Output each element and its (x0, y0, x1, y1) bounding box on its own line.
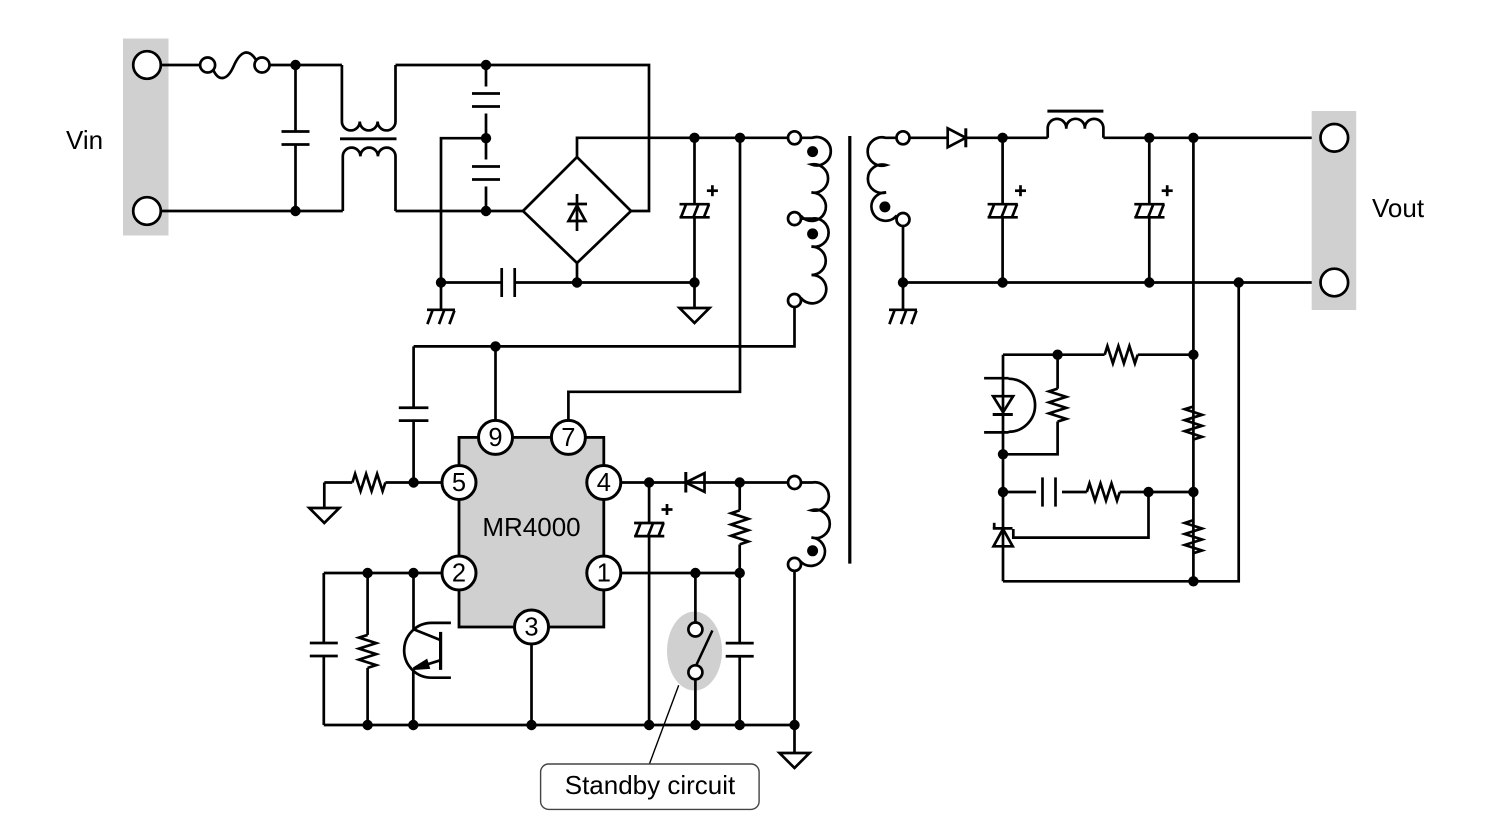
wire choke to bridge top-right (396, 65, 650, 211)
fuse F1 (200, 53, 269, 79)
junction dot C-standby bottom (735, 720, 745, 730)
aux electrolytic C-vcc2 (634, 483, 672, 726)
standby highlight ellipse (667, 612, 722, 691)
bulk electrolytic C1 (680, 138, 718, 283)
junction dot C1 bottom (689, 277, 699, 287)
transformer T1 secondary winding (868, 131, 910, 226)
Vout terminal + circle (1321, 124, 1349, 152)
junction dot pin3 (526, 720, 536, 730)
transformer core bar (848, 136, 851, 564)
resistor R-upper divider (1185, 407, 1202, 440)
wire bottom line to bridge (396, 210, 524, 213)
svg-text:2: 2 (452, 560, 466, 588)
junction dot DC+ at C1 (689, 133, 699, 143)
wire pin2 rail (324, 572, 443, 575)
capacitor C-vcc (399, 346, 429, 482)
wire bridge bottom (576, 263, 579, 283)
Vin terminal - circle (133, 197, 161, 225)
Vout terminal block (1312, 111, 1357, 310)
Vout terminal - circle (1321, 269, 1349, 297)
IC pin 2 (442, 556, 476, 590)
junction dot ground rail left (436, 277, 446, 287)
svg-text:4: 4 (597, 469, 611, 497)
junction dot Vout+ C3 (1144, 133, 1154, 143)
junction dot C3 bottom (1144, 277, 1154, 287)
svg-text:5: 5 (452, 469, 466, 497)
leader line standby (649, 685, 678, 764)
wire pin7 to DC rail (568, 138, 740, 421)
output electrolytic C2 (988, 138, 1026, 283)
Vin terminal block (123, 39, 169, 236)
junction dot secondary return (898, 277, 908, 287)
startup wire T1 to IC (414, 307, 795, 346)
filter inductor L2 (1047, 111, 1103, 138)
resistor R-fb phase (1087, 483, 1120, 500)
wire Vin-L to fuse (160, 64, 200, 67)
junction dot fb bottom (1188, 576, 1198, 586)
shunt regulator TL431 (993, 492, 1013, 581)
svg-text:7: 7 (561, 424, 575, 452)
secondary ground rail (903, 281, 1321, 284)
junction dot D3-C2 (997, 133, 1007, 143)
wire opto to TL431 (1002, 454, 1005, 492)
T1 polarity dot primary (807, 146, 818, 157)
transistor Q1 (404, 573, 451, 725)
wire L2 to Vout+ (1103, 136, 1321, 139)
wire to fb mid dots (1120, 491, 1194, 494)
IC pin 4 (587, 466, 621, 500)
junction dot fb top rail (1188, 350, 1198, 360)
junction dot aux return (789, 720, 799, 730)
capacitor CY1 (472, 65, 500, 138)
fb top rail (1003, 353, 1193, 356)
resistor R-pin5 (324, 474, 413, 491)
svg-text:3: 3 (524, 614, 538, 642)
bridge rectifier DB1 (523, 157, 631, 263)
optocoupler PC1 LED (984, 355, 1035, 455)
T1 polarity dot secondary (879, 201, 890, 212)
junction dot node A (290, 60, 300, 70)
wire pin4 rail (621, 481, 788, 484)
Vin terminal + circle (133, 51, 161, 79)
junction dot pin2-R (362, 568, 372, 578)
junction dot Vout- fb (1234, 277, 1244, 287)
junction dot opto-R top (1052, 350, 1062, 360)
junction dot pin1-R (735, 568, 745, 578)
junction dot bridge bottom (572, 277, 582, 287)
IC pin 3 (515, 610, 549, 644)
resistor R-lower divider (1185, 520, 1202, 553)
ground aux return (780, 725, 810, 768)
junction dot Y-cap mid (481, 133, 491, 143)
Vout label (1372, 193, 1425, 223)
junction dot Y-cap bottom (481, 206, 491, 216)
wire Y-cap mid to primary ground (441, 138, 486, 282)
junction dot rail-Q1 (408, 720, 418, 730)
TL431 reference wire (1013, 492, 1148, 538)
junction dot pin2-Q (408, 568, 418, 578)
IC pin 9 (479, 420, 513, 454)
junction dot Y-cap top (481, 60, 491, 70)
diode D2 aux (686, 472, 705, 493)
junction dot rail-C2 (362, 720, 372, 730)
primary common rail (324, 724, 795, 727)
T1 polarity dot standby (807, 545, 818, 556)
IC pin 1 (587, 556, 621, 590)
junction dot pin5 node (408, 477, 418, 487)
Vin label (66, 125, 103, 155)
svg-text:1: 1 (597, 560, 611, 588)
capacitor CY2 (472, 138, 500, 211)
standby switch SW1 (688, 573, 712, 725)
IC pin 7 (551, 420, 585, 454)
diode D3 output (948, 128, 1003, 147)
capacitor C-pin2 (310, 573, 338, 725)
junction dot pin4-R (735, 477, 745, 487)
resistor R-fb series (1105, 346, 1138, 363)
common-mode choke L1 (340, 65, 397, 211)
wire D3 to L2 (1003, 136, 1048, 139)
junction dot TL431 cathode node (998, 487, 1008, 497)
transformer T1 mid terminal (788, 212, 801, 225)
wire pin1 rail (621, 572, 740, 575)
chassis ground primary (427, 283, 455, 325)
svg-text:9: 9 (488, 424, 502, 452)
chassis ground secondary (889, 283, 917, 325)
fb bottom rail (1003, 283, 1239, 582)
transformer T1 aux winding (788, 218, 829, 307)
wire pin3 down (530, 644, 533, 726)
capacitor C-ground coupling (502, 268, 515, 297)
IC pin 5 (442, 466, 476, 500)
capacitor CX1 across line (282, 65, 310, 211)
signal ground below C1 (680, 283, 710, 324)
wire pin5 (414, 481, 443, 484)
svg-text:Vin: Vin (66, 125, 103, 155)
junction dot C-vcc2 bottom (644, 720, 654, 730)
wire pin9 up (494, 346, 497, 421)
fb mid branch (1003, 477, 1087, 506)
junction dot pin4-C (644, 477, 654, 487)
primary ground rail (441, 281, 695, 284)
aux winding T1 standby (788, 476, 830, 571)
junction dot fb mid (1188, 487, 1198, 497)
wire secondary to D3 (910, 136, 948, 139)
output electrolytic C3 (1134, 138, 1172, 283)
IC MR4000 body (459, 437, 604, 627)
svg-text:MR4000: MR4000 (482, 512, 580, 542)
junction dot switch bottom (690, 720, 700, 730)
junction dot C2 bottom (997, 277, 1007, 287)
junction dot CX1 bottom (290, 206, 300, 216)
wire Vin-N bottom (160, 210, 343, 213)
wire secondary return (902, 226, 905, 283)
resistor R-opto parallel (1003, 355, 1066, 455)
svg-text:Vout: Vout (1372, 193, 1425, 223)
junction dot opto bottom (998, 449, 1008, 459)
standby label box (541, 764, 760, 809)
resistor R-pin2 (359, 573, 376, 725)
wire fuse to node A (270, 64, 342, 67)
feedback sense riser (1192, 138, 1195, 582)
junction dot DC+ at drain riser (735, 133, 745, 143)
junction dot pin1-sw (690, 568, 700, 578)
junction dot ref node (1143, 487, 1153, 497)
junction dot pin9 node (490, 341, 500, 351)
junction dot Vout+ fb (1188, 133, 1198, 143)
resistor R-aux (731, 483, 748, 574)
T1 polarity dot aux (807, 228, 818, 239)
wire bridge to DC+ rail (577, 138, 788, 157)
wire aux winding return (793, 571, 796, 725)
ground pin5 (309, 483, 339, 524)
svg-text:Standby circuit: Standby circuit (565, 770, 736, 800)
capacitor C-standby (726, 573, 754, 725)
transformer T1 primary winding (788, 131, 831, 221)
